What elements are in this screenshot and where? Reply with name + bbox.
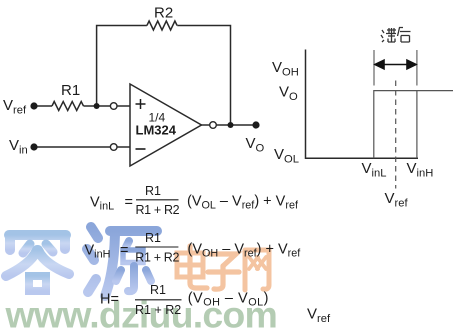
wire op-amp output — [202, 124, 210, 126]
terminal Vin dot — [30, 143, 37, 150]
hysteresis double arrow — [375, 60, 416, 69]
子 — [210, 254, 236, 266]
svg-text:VinL: VinL — [362, 160, 387, 179]
svg-text:=: = — [120, 243, 128, 259]
svg-text:VO: VO — [279, 84, 298, 103]
watermark chars 电子网 (peach) — [177, 246, 269, 290]
terminal Vref dot — [30, 102, 37, 109]
svg-text:VOL: VOL — [274, 146, 299, 165]
wire terminal to op-amp minus — [117, 146, 130, 148]
node junction output/feedback — [228, 122, 234, 128]
op-amp minus sign — [136, 148, 146, 150]
wire Vin to inverting input — [34, 146, 110, 148]
wire input terminal to op-amp — [117, 105, 130, 107]
svg-text:R2: R2 — [154, 5, 173, 22]
svg-text:Vref: Vref — [3, 97, 27, 116]
resistor R2 — [147, 21, 177, 30]
svg-text:=: = — [111, 292, 119, 308]
op-amp U1 triangle — [130, 84, 202, 166]
resistor R1 — [52, 102, 84, 111]
svg-text:R1: R1 — [150, 283, 166, 297]
svg-text:R1 + R2: R1 + R2 — [135, 251, 179, 265]
open terminal output — [210, 122, 217, 129]
terminal Vo dot — [252, 121, 259, 128]
svg-text:Vref: Vref — [385, 190, 409, 209]
svg-text:R1: R1 — [145, 231, 161, 245]
dashed line Vref — [395, 81, 397, 189]
svg-text:LM324: LM324 — [136, 123, 177, 138]
svg-text:=: = — [125, 195, 133, 211]
wire Vref to R1 — [34, 105, 52, 107]
svg-text:(VOL – Vref) + Vref: (VOL – Vref) + Vref — [187, 194, 299, 212]
equation VinH — [85, 231, 302, 265]
hysteresis left boundary tick — [373, 50, 375, 86]
svg-text:VinL: VinL — [90, 195, 114, 213]
svg-text:Vin: Vin — [9, 137, 28, 156]
wire output to Vo — [216, 124, 256, 126]
svg-text:R1: R1 — [145, 184, 161, 198]
电 — [187, 246, 192, 282]
equation H hysteresis width — [100, 283, 269, 317]
graph axes — [306, 50, 419, 159]
open terminal inverting input — [110, 144, 117, 151]
watermark char 源 (blue) — [87, 227, 157, 296]
svg-text:VO: VO — [246, 135, 265, 154]
wire R1 to noninverting input — [84, 105, 111, 107]
label 滞后 (hysteresis) — [381, 28, 411, 43]
node junction on noninverting input — [94, 103, 100, 109]
svg-text:Vref: Vref — [307, 306, 331, 325]
svg-text:H: H — [100, 292, 110, 308]
svg-text:VOH: VOH — [272, 59, 299, 78]
equation VinL — [90, 184, 299, 217]
svg-text:R1: R1 — [61, 82, 80, 99]
svg-text:VinH: VinH — [407, 160, 434, 179]
hysteresis right boundary tick — [416, 50, 418, 86]
网 — [245, 250, 269, 290]
svg-text:(VOH – Vref) + Vref: (VOH – Vref) + Vref — [188, 242, 302, 260]
open terminal noninverting input — [110, 103, 117, 110]
graph step waveform — [374, 91, 453, 159]
op-amp plus sign — [136, 99, 146, 109]
svg-text:R1 + R2: R1 + R2 — [136, 203, 180, 217]
wire feedback right vertical — [177, 26, 230, 126]
graph rising edge at VinH — [416, 91, 418, 159]
svg-text:R1 + R2: R1 + R2 — [135, 303, 181, 317]
wire feedback left vertical — [97, 26, 147, 107]
svg-text:VinH: VinH — [85, 243, 111, 261]
watermark char 容 (blue) — [6, 224, 69, 291]
